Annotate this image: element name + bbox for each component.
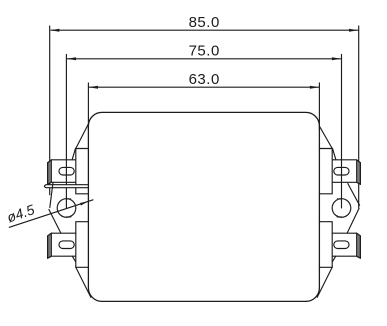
extension line left for 85.0: [49, 26, 51, 195]
right top terminal bend: [333, 148, 336, 159]
extension line right for 63.0 (to body edge): [318, 83, 320, 130]
svg-text:75.0: 75.0: [189, 43, 220, 60]
left top bracket: [76, 149, 89, 194]
left bottom tab shade: [48, 233, 52, 258]
right outer zigzag diagonal upper: [348, 184, 360, 206]
dimension 63.0 line: [89, 86, 319, 89]
right bottom tab outline: [332, 233, 360, 258]
right mounting hole circle: [332, 199, 351, 218]
extension/center line left for 75.0 (to hole center): [65, 55, 67, 209]
right outer zigzag diagonal lower: [347, 208, 359, 233]
filter body rounded rectangle: [88, 112, 319, 301]
right top tab outline: [332, 160, 360, 185]
left mounting hole circle: [57, 199, 76, 218]
dimension 75.0 line: [67, 57, 341, 60]
diameter leader line: [9, 200, 93, 228]
extension line right for 85.0: [358, 26, 360, 208]
left bottom bracket: [76, 222, 89, 268]
right top bracket: [319, 149, 332, 194]
right top corner diagonal: [320, 127, 333, 149]
left steep plate edge: [50, 183, 53, 208]
right bottom corner diagonal: [317, 267, 332, 297]
left bottom corner diagonal: [76, 267, 91, 297]
extension line left for 63.0 (to body edge): [87, 83, 89, 130]
left top tab oval hole: [59, 167, 74, 175]
left ear notch: [66, 199, 70, 217]
right bottom bracket: [319, 222, 332, 268]
left bottom tab outline: [48, 233, 76, 258]
left lower ear diagonal: [49, 210, 61, 234]
right top tab shade: [357, 160, 361, 184]
left bottom terminal bend: [72, 256, 75, 261]
left top terminal bend: [72, 148, 75, 159]
left top tab shade: [48, 160, 52, 184]
left bottom tab oval hole: [59, 241, 74, 249]
right ear notch: [337, 199, 341, 217]
left flange plate edge-on (flat ellipse): [44, 185, 88, 188]
right bottom tab shade: [357, 233, 361, 258]
dimension 85.0 line: [50, 29, 358, 32]
svg-text:63.0: 63.0: [189, 71, 220, 88]
left top corner diagonal (flange edge behind body): [76, 124, 89, 149]
svg-text:85.0: 85.0: [189, 14, 220, 31]
right bottom terminal bend: [333, 256, 336, 261]
extension/center line right for 75.0 (to hole center): [341, 55, 343, 209]
right top tab oval hole: [334, 167, 349, 175]
right bottom tab oval hole: [334, 241, 349, 249]
left top tab outline: [48, 160, 76, 185]
diameter leader arrowhead: [80, 201, 89, 205]
